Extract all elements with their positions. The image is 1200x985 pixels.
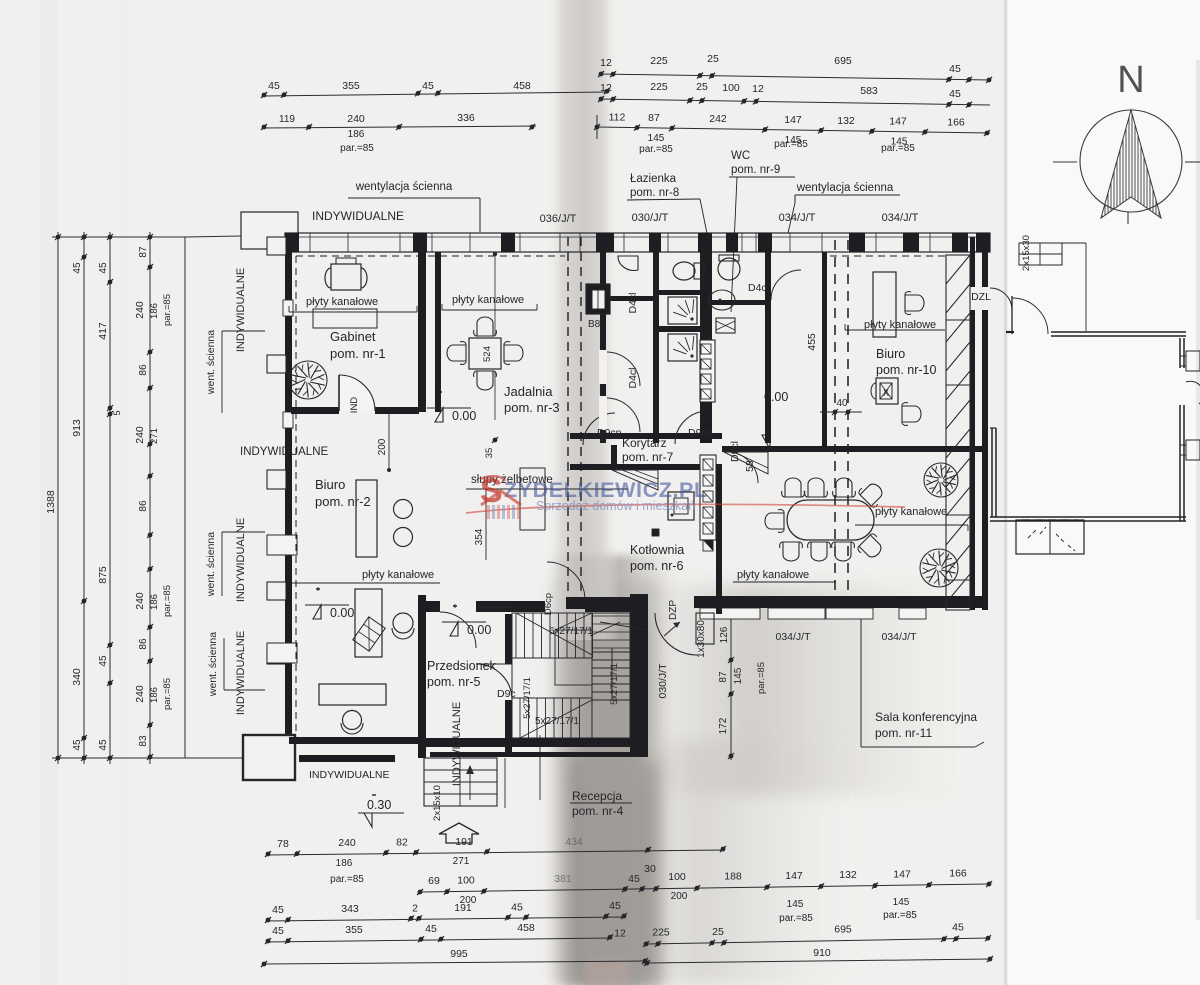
svg-text:pom. nr-4: pom. nr-4 xyxy=(572,804,624,818)
svg-text:242: 242 xyxy=(709,113,727,125)
svg-text:wentylacja ścienna: wentylacja ścienna xyxy=(796,182,894,194)
svg-text:Korytarz: Korytarz xyxy=(622,436,667,450)
svg-text:200: 200 xyxy=(377,438,388,455)
svg-text:132: 132 xyxy=(837,115,855,127)
svg-text:45: 45 xyxy=(949,63,961,75)
svg-text:DZL: DZL xyxy=(971,291,991,303)
svg-text:X: X xyxy=(883,388,889,398)
svg-text:par.=85: par.=85 xyxy=(639,144,673,155)
svg-text:172: 172 xyxy=(718,717,729,734)
svg-text:0.00: 0.00 xyxy=(330,606,354,620)
svg-text:par.=85: par.=85 xyxy=(779,913,813,924)
svg-text:126: 126 xyxy=(719,626,730,643)
svg-text:45: 45 xyxy=(628,873,640,885)
svg-text:034/J/T: 034/J/T xyxy=(881,631,917,643)
svg-text:034/J/T: 034/J/T xyxy=(775,631,811,643)
svg-text:płyty kanałowe: płyty kanałowe xyxy=(864,319,936,331)
svg-text:pom. nr-1: pom. nr-1 xyxy=(330,346,386,361)
svg-text:par.=85: par.=85 xyxy=(330,874,364,885)
svg-text:0.00: 0.00 xyxy=(467,623,491,637)
svg-text:147: 147 xyxy=(785,870,803,882)
svg-text:147: 147 xyxy=(893,868,911,880)
svg-text:45: 45 xyxy=(425,923,437,935)
svg-text:D4cl: D4cl xyxy=(748,282,769,294)
svg-text:82: 82 xyxy=(396,837,408,849)
svg-text:45: 45 xyxy=(72,262,83,274)
svg-text:pom. nr-7: pom. nr-7 xyxy=(622,450,674,464)
svg-text:Sprzedaż domów i mieszkań: Sprzedaż domów i mieszkań xyxy=(536,499,695,513)
svg-text:2: 2 xyxy=(412,902,418,914)
svg-text:par.=85: par.=85 xyxy=(883,910,917,921)
svg-text:45: 45 xyxy=(949,88,961,100)
svg-text:225: 225 xyxy=(650,81,668,93)
svg-text:200: 200 xyxy=(671,891,688,902)
svg-text:381: 381 xyxy=(554,873,572,885)
svg-text:145: 145 xyxy=(893,897,910,908)
svg-text:went. ścienna: went. ścienna xyxy=(205,532,217,597)
svg-text:100: 100 xyxy=(722,82,740,94)
svg-text:455: 455 xyxy=(806,333,818,351)
svg-text:112: 112 xyxy=(609,111,626,123)
svg-text:030/J/T: 030/J/T xyxy=(657,663,669,699)
svg-text:40: 40 xyxy=(836,398,848,409)
svg-text:INDYWIDUALNE: INDYWIDUALNE xyxy=(235,518,247,602)
svg-text:0.30: 0.30 xyxy=(367,798,391,812)
svg-text:pom. nr-2: pom. nr-2 xyxy=(315,494,371,509)
svg-text:240: 240 xyxy=(134,685,146,703)
svg-text:83: 83 xyxy=(138,735,149,747)
svg-text:pom. nr-6: pom. nr-6 xyxy=(630,559,684,573)
svg-text:240: 240 xyxy=(134,426,146,444)
svg-text:25: 25 xyxy=(712,926,724,938)
svg-text:35: 35 xyxy=(484,448,495,459)
svg-text:DZP: DZP xyxy=(668,600,679,620)
svg-text:45: 45 xyxy=(72,739,83,751)
svg-text:D4cl: D4cl xyxy=(627,367,639,388)
svg-text:87: 87 xyxy=(648,112,660,124)
svg-text:186: 186 xyxy=(149,594,160,610)
svg-text:INDYWIDUALNE: INDYWIDUALNE xyxy=(451,702,463,786)
svg-text:1x30x80: 1x30x80 xyxy=(696,620,707,658)
svg-text:225: 225 xyxy=(652,927,670,939)
svg-text:186: 186 xyxy=(149,303,160,319)
svg-text:69: 69 xyxy=(428,875,440,887)
svg-text:458: 458 xyxy=(513,80,531,92)
svg-text:WC: WC xyxy=(731,150,750,162)
svg-text:034/J/T: 034/J/T xyxy=(882,212,919,224)
svg-text:45: 45 xyxy=(952,922,964,934)
svg-text:12: 12 xyxy=(600,82,612,94)
svg-text:100: 100 xyxy=(668,871,686,883)
svg-text:354: 354 xyxy=(474,528,485,545)
svg-text:343: 343 xyxy=(341,903,359,915)
svg-text:355: 355 xyxy=(342,80,360,92)
svg-text:0.00: 0.00 xyxy=(764,390,788,404)
svg-text:12: 12 xyxy=(600,57,612,69)
svg-text:336: 336 xyxy=(457,112,475,124)
svg-text:25: 25 xyxy=(707,53,719,65)
svg-text:went. ścienna: went. ścienna xyxy=(205,330,217,395)
svg-text:225: 225 xyxy=(650,55,668,67)
svg-text:240: 240 xyxy=(134,592,146,610)
svg-text:166: 166 xyxy=(947,116,965,128)
svg-text:695: 695 xyxy=(834,55,852,67)
svg-text:86: 86 xyxy=(138,364,149,376)
svg-text:Gabinet: Gabinet xyxy=(330,329,376,344)
svg-text:87: 87 xyxy=(138,246,149,258)
svg-text:145: 145 xyxy=(733,667,744,684)
svg-text:45: 45 xyxy=(98,655,109,667)
svg-text:pom. nr-9: pom. nr-9 xyxy=(731,164,780,176)
svg-text:25: 25 xyxy=(696,81,708,93)
svg-text:1388: 1388 xyxy=(45,490,57,514)
svg-text:płyty kanałowe: płyty kanałowe xyxy=(875,506,947,518)
svg-text:INDYWIDUALNE: INDYWIDUALNE xyxy=(235,268,247,352)
svg-text:45: 45 xyxy=(272,925,284,937)
svg-text:166: 166 xyxy=(949,867,967,879)
svg-text:271: 271 xyxy=(149,428,160,444)
svg-text:188: 188 xyxy=(724,871,742,883)
svg-text:D6cp: D6cp xyxy=(543,593,554,615)
svg-text:240: 240 xyxy=(134,301,146,319)
svg-text:Jadalnia: Jadalnia xyxy=(504,384,553,399)
svg-text:191: 191 xyxy=(454,902,472,914)
svg-text:par.=85: par.=85 xyxy=(774,139,808,150)
svg-text:płyty kanałowe: płyty kanałowe xyxy=(362,569,434,581)
svg-text:119: 119 xyxy=(279,114,295,125)
svg-text:pom. nr-3: pom. nr-3 xyxy=(504,400,560,415)
svg-text:2x15x30: 2x15x30 xyxy=(1021,235,1032,271)
svg-text:INDYWIDUALNE: INDYWIDUALNE xyxy=(312,209,404,223)
svg-text:pom. nr-10: pom. nr-10 xyxy=(876,363,936,377)
svg-text:pom. nr-11: pom. nr-11 xyxy=(875,726,932,740)
svg-text:417: 417 xyxy=(97,322,109,340)
svg-text:145: 145 xyxy=(787,899,804,910)
svg-text:par.=85: par.=85 xyxy=(162,678,173,710)
svg-text:995: 995 xyxy=(450,948,468,960)
svg-text:30: 30 xyxy=(644,863,656,875)
svg-text:2x15x10: 2x15x10 xyxy=(432,785,443,821)
svg-text:240: 240 xyxy=(338,837,356,849)
svg-text:147: 147 xyxy=(889,116,907,128)
svg-text:100: 100 xyxy=(457,874,475,886)
svg-text:186: 186 xyxy=(336,858,353,869)
svg-text:went. ścienna: went. ścienna xyxy=(207,632,219,697)
svg-text:pom. nr-5: pom. nr-5 xyxy=(427,675,481,689)
svg-text:78: 78 xyxy=(277,838,289,850)
svg-text:45: 45 xyxy=(422,80,434,92)
svg-text:Recepcja: Recepcja xyxy=(572,789,622,803)
svg-text:Biuro: Biuro xyxy=(876,347,905,361)
svg-text:524: 524 xyxy=(482,346,493,362)
svg-text:wentylacja ścienna: wentylacja ścienna xyxy=(355,181,453,193)
svg-text:191: 191 xyxy=(455,836,473,848)
svg-text:695: 695 xyxy=(834,924,852,936)
svg-text:86: 86 xyxy=(138,638,149,650)
svg-text:INDYWIDUALNE: INDYWIDUALNE xyxy=(240,446,329,458)
svg-text:186: 186 xyxy=(348,129,365,140)
svg-text:Biuro: Biuro xyxy=(315,477,345,492)
svg-text:płyty kanałowe: płyty kanałowe xyxy=(452,294,524,306)
svg-text:5x27/17/1: 5x27/17/1 xyxy=(609,663,620,705)
svg-text:147: 147 xyxy=(784,114,802,126)
svg-text:240: 240 xyxy=(347,113,365,125)
svg-text:86: 86 xyxy=(138,500,149,512)
svg-text:5x27/17/1: 5x27/17/1 xyxy=(522,677,533,719)
svg-text:D9cp: D9cp xyxy=(688,427,713,439)
svg-text:45: 45 xyxy=(609,900,621,912)
svg-text:INDYWIDUALNE: INDYWIDUALNE xyxy=(309,769,390,781)
svg-text:6x27/17/1: 6x27/17/1 xyxy=(549,626,593,637)
svg-text:0.00: 0.00 xyxy=(452,409,476,423)
svg-text:583: 583 xyxy=(860,85,878,97)
svg-text:5: 5 xyxy=(112,410,122,415)
svg-text:INDYWIDUALNE: INDYWIDUALNE xyxy=(235,631,247,715)
svg-text:45: 45 xyxy=(98,739,109,751)
svg-text:płyty kanałowe: płyty kanałowe xyxy=(737,569,809,581)
svg-text:132: 132 xyxy=(839,869,857,881)
svg-text:458: 458 xyxy=(517,922,535,934)
svg-text:B8: B8 xyxy=(588,319,601,330)
svg-text:par.=85: par.=85 xyxy=(340,143,374,154)
svg-text:45: 45 xyxy=(272,904,284,916)
svg-text:Przedsionek: Przedsionek xyxy=(427,659,497,673)
svg-text:036/J/T: 036/J/T xyxy=(540,213,577,225)
svg-text:D9cl: D9cl xyxy=(729,441,741,462)
svg-text:D9c: D9c xyxy=(497,688,516,700)
svg-text:D4cl: D4cl xyxy=(627,292,639,313)
svg-text:5x27/17/1: 5x27/17/1 xyxy=(535,716,579,727)
svg-text:913: 913 xyxy=(71,419,83,437)
svg-text:płyty kanałowe: płyty kanałowe xyxy=(306,296,378,308)
svg-text:N: N xyxy=(1117,59,1144,101)
svg-text:D9cp: D9cp xyxy=(597,427,622,439)
svg-text:271: 271 xyxy=(453,856,470,867)
svg-text:par.=85: par.=85 xyxy=(162,294,173,326)
svg-text:186: 186 xyxy=(149,687,160,703)
svg-text:434: 434 xyxy=(565,836,583,848)
svg-text:45: 45 xyxy=(511,901,523,913)
svg-text:Sala konferencyjna: Sala konferencyjna xyxy=(875,710,977,724)
svg-text:034/J/T: 034/J/T xyxy=(779,212,816,224)
svg-text:87: 87 xyxy=(718,671,729,683)
svg-text:45: 45 xyxy=(268,80,280,92)
svg-text:par.=85: par.=85 xyxy=(756,662,767,694)
svg-text:Łazienka: Łazienka xyxy=(630,173,677,185)
svg-text:12: 12 xyxy=(752,83,764,95)
svg-text:340: 340 xyxy=(71,668,83,686)
svg-text:355: 355 xyxy=(345,924,363,936)
svg-text:030/J/T: 030/J/T xyxy=(632,212,669,224)
svg-text:par.=85: par.=85 xyxy=(162,585,173,617)
svg-text:45: 45 xyxy=(98,262,109,274)
svg-text:IND: IND xyxy=(349,397,360,414)
svg-text:pom. nr-8: pom. nr-8 xyxy=(630,187,679,199)
svg-text:12: 12 xyxy=(614,927,626,939)
svg-text:910: 910 xyxy=(813,947,831,959)
svg-text:875: 875 xyxy=(97,566,109,584)
svg-text:par.=85: par.=85 xyxy=(881,143,915,154)
svg-text:Kotłownia: Kotłownia xyxy=(630,543,684,557)
svg-text:145: 145 xyxy=(648,133,665,144)
